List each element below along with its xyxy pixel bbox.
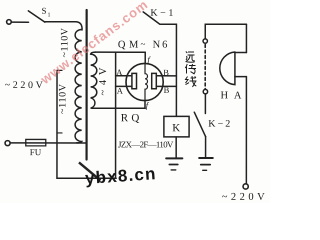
svg-text:HA: HA xyxy=(221,90,242,101)
svg-text:~220V: ~220V xyxy=(5,80,44,91)
svg-text:N6: N6 xyxy=(153,40,168,51)
svg-text:FU: FU xyxy=(30,147,42,157)
svg-text:QM: QM xyxy=(118,40,139,51)
svg-text:B: B xyxy=(163,67,169,77)
svg-text:~110V: ~110V xyxy=(57,83,68,114)
svg-text:f: f xyxy=(146,100,150,110)
svg-text:1: 1 xyxy=(48,12,51,18)
svg-text:f: f xyxy=(147,55,151,65)
svg-text:~4V: ~4V xyxy=(98,67,109,95)
svg-text:A: A xyxy=(116,67,123,77)
svg-text:K−2: K−2 xyxy=(208,119,230,130)
svg-text:RQ: RQ xyxy=(121,112,140,124)
svg-text:~: ~ xyxy=(141,39,146,49)
svg-text:JZX—2F—110V: JZX—2F—110V xyxy=(118,139,174,149)
svg-text:S: S xyxy=(42,6,47,16)
svg-text:A: A xyxy=(117,86,124,96)
svg-text:ybx8.cn: ybx8.cn xyxy=(84,164,156,188)
svg-text:K−1: K−1 xyxy=(150,8,173,19)
svg-text:B: B xyxy=(164,85,170,95)
svg-text:K: K xyxy=(172,122,180,134)
svg-text:~220V: ~220V xyxy=(222,192,265,203)
